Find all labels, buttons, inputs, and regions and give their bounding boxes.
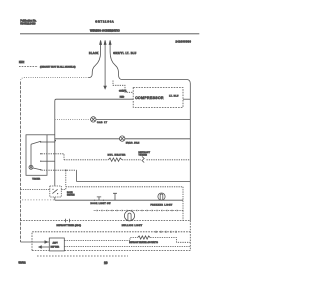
header rule — [20, 33, 199, 35]
wire timer box top to bus — [47, 134, 55, 136]
timer motor — [29, 165, 33, 169]
svg-text:GRN/YL: GRN/YL — [119, 90, 128, 92]
svg-text:(CIRCUIT NOT IN ALL MODELS): (CIRCUIT NOT IN ALL MODELS) — [40, 66, 76, 69]
node ticks on liner — [66, 219, 70, 223]
wire evap fan line left — [55, 138, 120, 140]
svg-text:GRN/YL LT. BLU: GRN/YL LT. BLU — [113, 53, 136, 55]
publication number text — [20, 20, 36, 26]
wire top edge left (dotted) — [21, 78, 89, 82]
wire junction drop to freezer circuit — [65, 170, 67, 187]
svg-text:MUL HEATER: MUL HEATER — [108, 154, 126, 157]
svg-text:WIRING SCHEMATIC: WIRING SCHEMATIC — [90, 29, 120, 33]
wire left border — [20, 82, 22, 243]
adc module box — [49, 238, 64, 251]
node junction evap line — [54, 140, 56, 142]
thermostat defrost — [142, 157, 144, 163]
switch freezer light stem — [97, 197, 101, 200]
svg-text:DOOR LIGHT SW: DOOR LIGHT SW — [91, 203, 111, 205]
defrost timer box — [26, 135, 47, 176]
wire mullion heater line — [64, 159, 108, 161]
timer switch blade — [31, 141, 41, 144]
wire border to adc with arrow — [21, 241, 50, 243]
svg-text:FREEZER LIGHT: FREEZER LIGHT — [151, 204, 174, 206]
wire mullion line right — [147, 159, 191, 161]
resistor mullion heater — [108, 158, 121, 161]
node ticks on freezer box bottom — [97, 210, 177, 212]
svg-text:59/02: 59/02 — [19, 260, 26, 264]
svg-text:242698800: 242698800 — [176, 40, 192, 43]
svg-text:LT. BLU: LT. BLU — [169, 96, 179, 98]
wire compressor to right border — [183, 98, 190, 100]
svg-text:DEFROST HEATER 450 WATTS: DEFROST HEATER 450 WATTS — [129, 241, 158, 244]
power cord prong left (black) — [89, 44, 101, 77]
wire timer pin4 — [42, 169, 77, 171]
timer internal wire to pin4 — [33, 168, 41, 170]
wire timer pin1 to bus — [42, 141, 55, 143]
wire right border — [189, 84, 191, 221]
freezer circuit box bottom edge — [93, 210, 183, 212]
power cord prong middle (ground) — [104, 44, 106, 86]
wire inner bus left edge — [54, 101, 56, 201]
wire mullion line mid — [122, 159, 141, 161]
wire door switch out — [61, 187, 66, 190]
wire long bottom line — [77, 181, 191, 183]
svg-text:MULLION LIGHT: MULLION LIGHT — [122, 225, 143, 227]
extra dashed segment — [37, 255, 128, 257]
wire cab light line right — [96, 119, 190, 121]
switch second stem — [113, 193, 117, 200]
wire timer pin3 to bus — [42, 160, 55, 162]
svg-text:ADPT: ADPT — [53, 241, 59, 244]
svg-text:THERM: THERM — [139, 154, 148, 156]
wire ground branch to compressor (dashed) — [113, 81, 133, 93]
svg-text:5995210469: 5995210469 — [20, 23, 36, 26]
svg-text:DEF TMR: DEF TMR — [51, 247, 60, 249]
wire evap fan line right — [125, 138, 190, 140]
wire adc second right — [64, 245, 190, 247]
wire door switch feed — [21, 188, 50, 190]
wire freezer light line — [55, 199, 183, 201]
door switch contacts — [52, 189, 53, 190]
freezer circuit stub to liner — [182, 211, 184, 221]
svg-text:10: 10 — [104, 261, 108, 265]
wire liner bottom dashed — [21, 220, 191, 222]
node junction pin4 — [65, 169, 67, 171]
svg-text:DEFROST TIMER (ADC): DEFROST TIMER (ADC) — [57, 224, 82, 227]
wire inner bus top edge — [55, 99, 133, 101]
svg-text:GRT21S6A: GRT21S6A — [95, 19, 114, 23]
wire top edge right — [122, 80, 190, 84]
svg-text:SWITCH: SWITCH — [67, 194, 75, 196]
svg-text:TIMER: TIMER — [32, 178, 40, 180]
svg-text:BLACK: BLACK — [89, 52, 99, 55]
svg-text:COMPRESSOR: COMPRESSOR — [135, 96, 164, 100]
wire heater right — [150, 238, 190, 243]
freezer circuit box right edge — [182, 187, 184, 211]
motor evap fan — [120, 136, 125, 141]
freezer circuit box top edge — [66, 186, 183, 188]
lamp cab light — [91, 117, 96, 122]
lamp freezer light — [158, 193, 165, 200]
wire pin4 drop — [76, 170, 78, 181]
power cord prong right — [110, 44, 122, 79]
wire right border lower (dashed) — [189, 221, 191, 251]
compressor box (dashed) — [133, 88, 183, 108]
lamp mullion light — [124, 211, 134, 221]
resistor defrost heater — [138, 236, 151, 239]
ground arrow — [104, 86, 106, 89]
wire freezer light line faint left — [22, 199, 54, 201]
wire cab light line dotted left — [55, 119, 91, 121]
wire adc left arrow — [39, 246, 49, 248]
svg-text:CAB LT: CAB LT — [97, 121, 108, 124]
svg-text:EVAP. FAN: EVAP. FAN — [126, 141, 140, 144]
ticks on adc box top — [156, 231, 176, 233]
wire timer pin2 to mullion line — [42, 154, 65, 160]
svg-text:KEY:: KEY: — [19, 61, 25, 64]
adc circuit box dashed — [32, 232, 190, 251]
svg-text:RED: RED — [120, 97, 125, 99]
wire adc to heater — [64, 238, 137, 241]
door switch box — [50, 186, 62, 197]
timer internal wire — [30, 144, 32, 165]
timer contact pins — [40, 141, 41, 170]
door switch blade — [52, 189, 57, 193]
